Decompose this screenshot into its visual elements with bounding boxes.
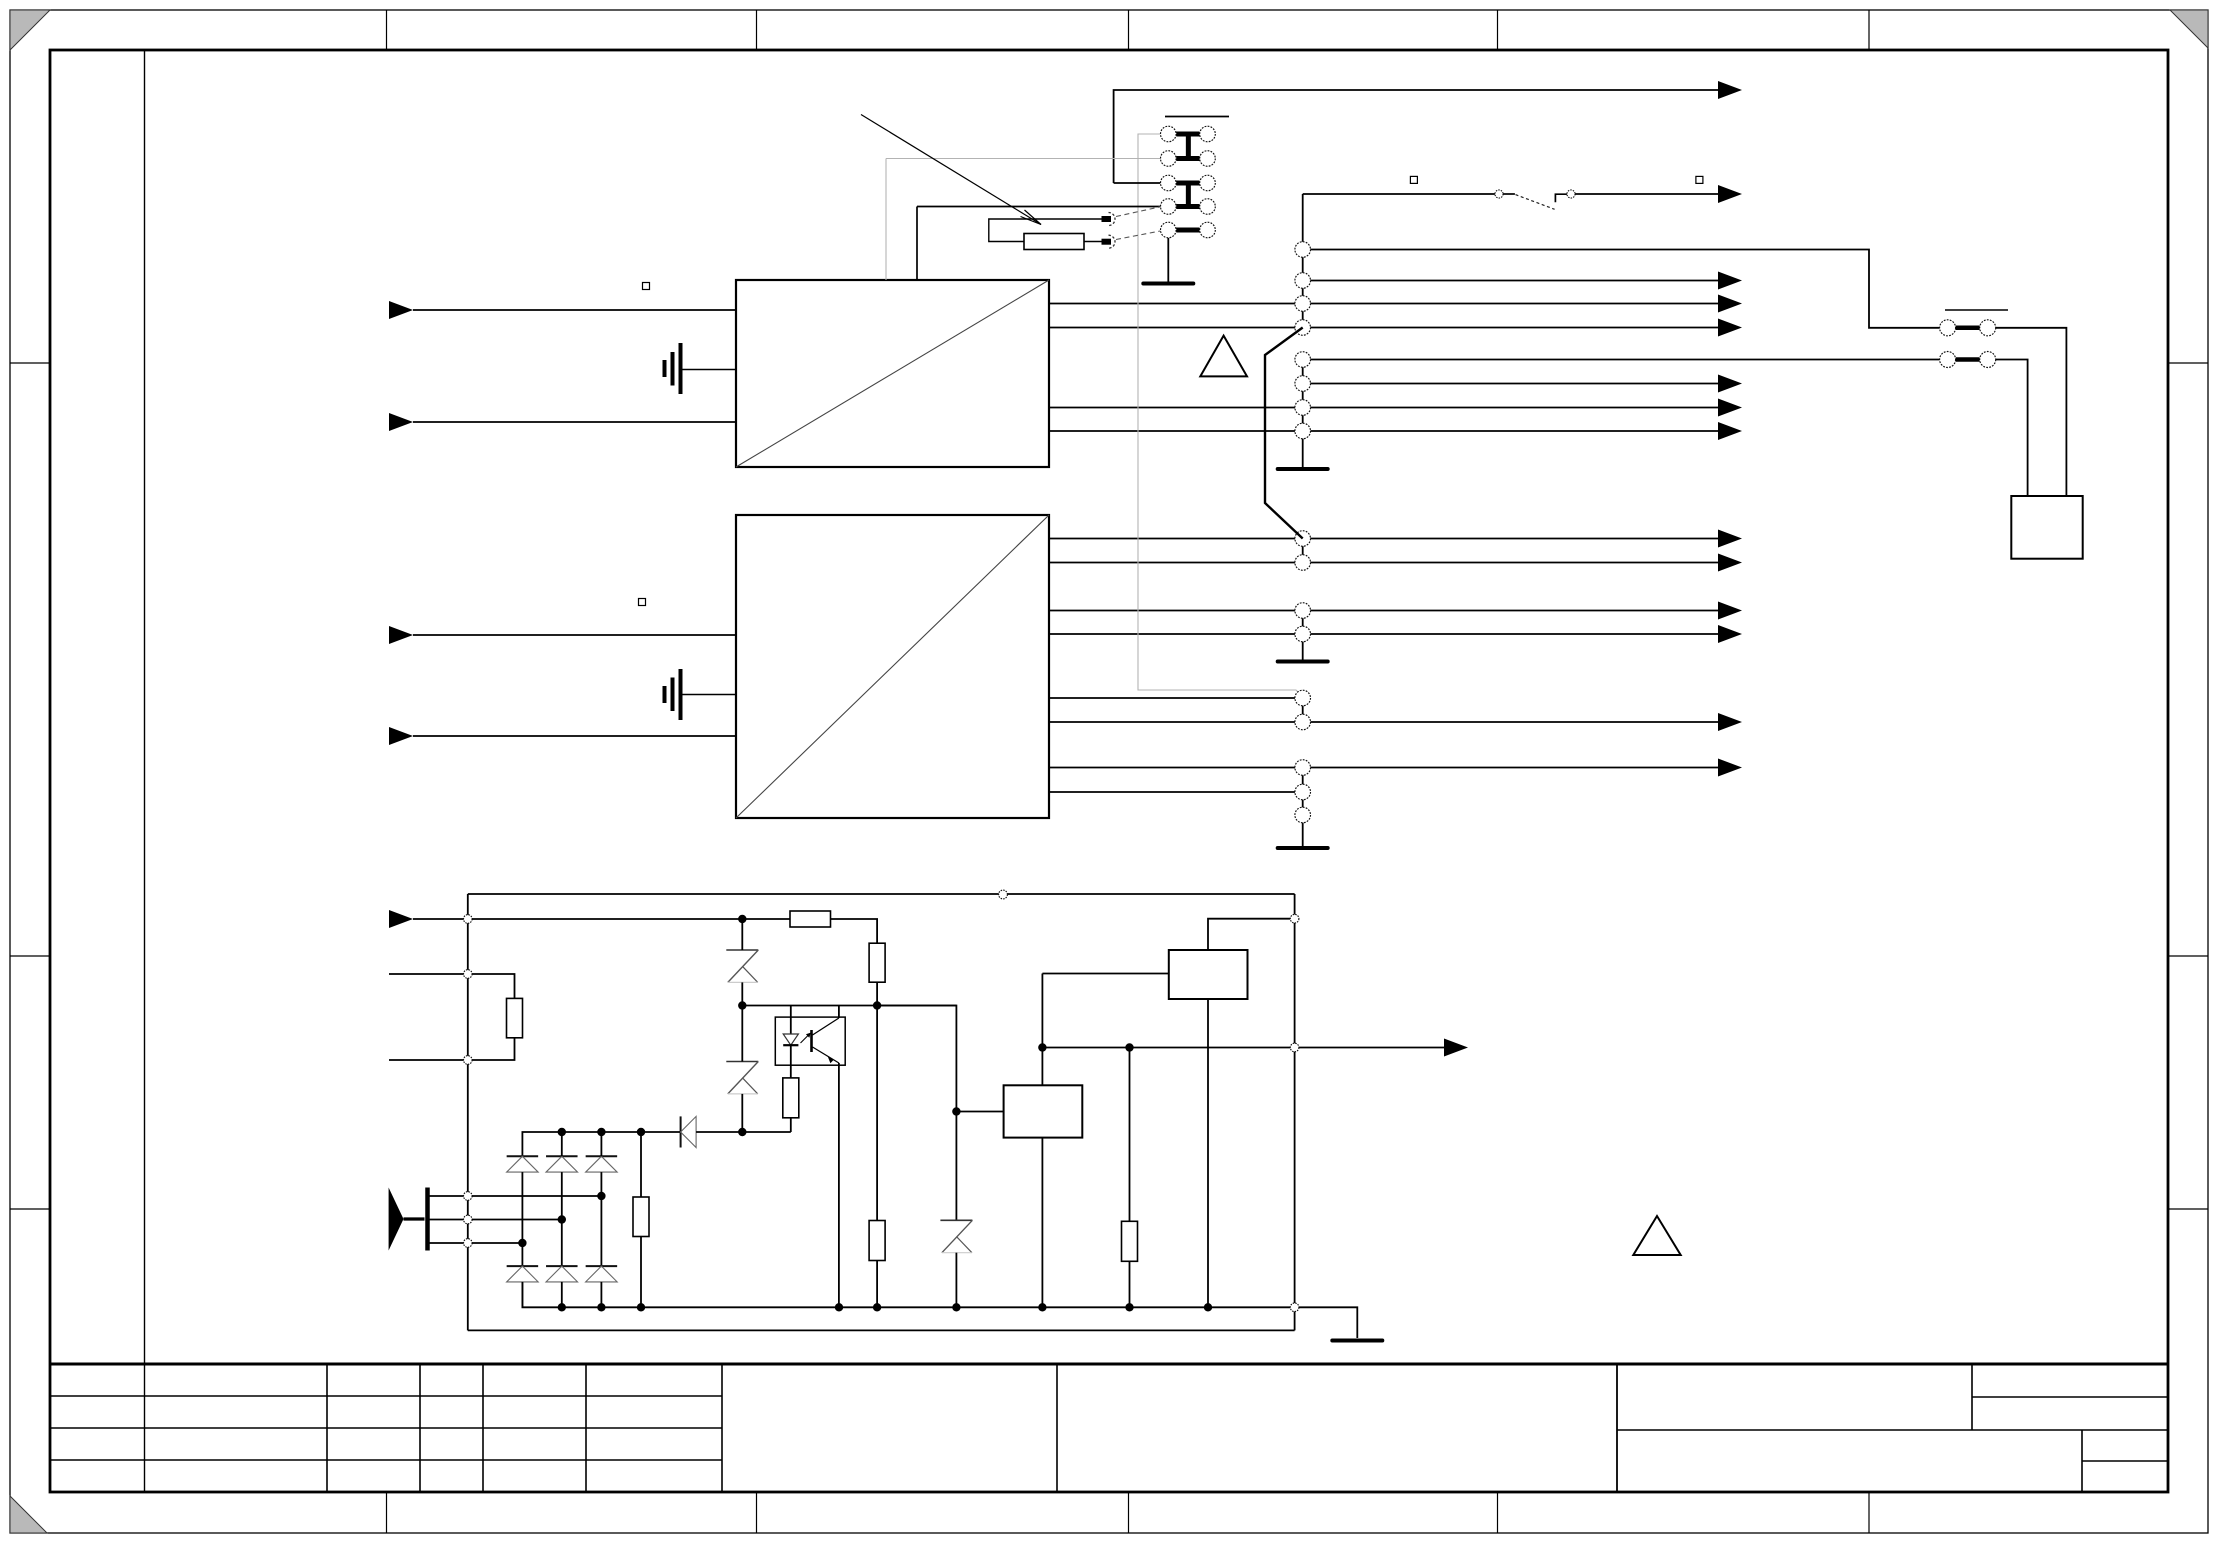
title block right section divider xyxy=(1616,1364,1618,1492)
wire R7 terminal A xyxy=(989,219,1103,242)
optocoupler U1 LED xyxy=(783,1034,798,1045)
bridge diode D6 bottom xyxy=(586,1265,618,1267)
adjust pointer arrow xyxy=(861,115,1041,225)
wire R2b bottom xyxy=(876,1261,878,1308)
wire bridge col2 top stub xyxy=(561,1132,563,1156)
title block right cell divider xyxy=(1971,1364,1973,1430)
title block middle divider xyxy=(1056,1364,1058,1492)
corner trim triangle top-left xyxy=(10,10,50,50)
chassis shield symbol PS2 xyxy=(663,686,667,703)
R7 clip terminal A xyxy=(1102,216,1112,222)
wire to switch S1 xyxy=(1303,193,1495,195)
junction dot Z3 rail xyxy=(952,1107,960,1115)
wire PS2 out6 xyxy=(1049,721,1720,723)
option square switch net xyxy=(1410,176,1417,183)
wire R5 bottom xyxy=(1129,1261,1131,1307)
module X1 box xyxy=(2011,496,2082,559)
resistor R3 xyxy=(633,1197,649,1237)
input arrow supply + xyxy=(389,910,413,928)
wire bus group2 vertical xyxy=(1302,360,1304,432)
output arrow bus row 280 xyxy=(1718,272,1742,290)
switch S1 contact stub xyxy=(1503,193,1515,195)
wire header J1 row4 entry xyxy=(917,206,1160,208)
wire PS1 top pin gray xyxy=(885,159,887,281)
junction dot Z1 top xyxy=(738,915,746,923)
output arrow PS2 out7 xyxy=(1718,759,1742,777)
wire bus group4 vertical xyxy=(1302,611,1304,635)
junction dot out row a xyxy=(1038,1043,1046,1051)
wire PS1 out3 xyxy=(1049,407,1720,409)
warning triangle 1 xyxy=(1200,336,1247,377)
wire PS1 top pin 2 xyxy=(916,207,918,281)
wire to U3 left pin xyxy=(956,1111,1003,1113)
ground bar bus group2 xyxy=(1278,467,1328,471)
title block column d xyxy=(585,1364,587,1492)
wire Z1 top xyxy=(741,919,743,950)
title block row line 2 xyxy=(50,1427,722,1429)
crossover jog wire xyxy=(1265,328,1303,539)
resistor R4 xyxy=(783,1078,799,1118)
title block right row line 3 xyxy=(2082,1460,2168,1462)
wire bus group6 ground stem xyxy=(1302,815,1304,846)
bridge diode D5 bottom xyxy=(546,1265,578,1267)
output arrow PS1 out2 xyxy=(1718,319,1742,337)
wire supply loop bottom xyxy=(468,1329,1295,1331)
output arrow PS2 out4 xyxy=(1718,625,1742,643)
wire line to right header row1 xyxy=(1303,250,1940,328)
input resistor R0 wires xyxy=(468,974,515,998)
bottom margin zone ticks xyxy=(386,1492,388,1533)
wire supply loop left rail xyxy=(467,894,469,1330)
bus terminal circles xyxy=(1295,242,1311,258)
sounder MK1 cone xyxy=(389,1188,404,1251)
wire PS2 out4 xyxy=(1049,633,1720,635)
wire bridge bottom bus xyxy=(522,1282,1290,1308)
junction dots bottom bus right xyxy=(835,1303,843,1311)
wire R3 top xyxy=(640,1132,642,1197)
input resistor R0 xyxy=(507,998,523,1037)
wire switch feed vertical xyxy=(1302,194,1304,328)
trimmer resistor R7 body xyxy=(1024,234,1084,250)
wire node corner to Z3 rail xyxy=(877,1006,956,1221)
optocoupler U1 box xyxy=(775,1017,845,1065)
wire bridge column 3 mid xyxy=(600,1172,602,1266)
wire PS2 out2 xyxy=(1049,562,1720,564)
output arrow VCC top xyxy=(1718,81,1742,99)
zener Z3 xyxy=(940,1219,972,1221)
wire PS2 out8 xyxy=(1049,791,1303,793)
gray sense wire 1 xyxy=(1138,134,1301,695)
wire R7 terminal B xyxy=(1084,241,1103,243)
wire PS1 out1 xyxy=(1049,303,1720,305)
wire header J1 ground stem xyxy=(1167,238,1169,282)
input line aux 2 xyxy=(389,1059,468,1061)
zener Z1 xyxy=(726,949,758,951)
input arrow to PS2 pin 1 xyxy=(389,626,413,644)
output arrow PS2 out6 xyxy=(1718,713,1742,731)
chassis shield symbol PS1 xyxy=(663,360,667,377)
corner trim triangle top-right xyxy=(2170,10,2208,48)
input arrow to PS2 pin 3 xyxy=(389,727,413,745)
left revision column line xyxy=(144,50,146,1492)
title block row line 1 xyxy=(50,1395,722,1397)
switch S1 contact tick xyxy=(1555,194,1567,202)
input arrow to PS1 pin 3 xyxy=(389,413,413,431)
output arrow PS2 out3 xyxy=(1718,602,1742,620)
wire LED cathode to R4 xyxy=(790,1045,792,1078)
wire switch S1 to arrow xyxy=(1575,193,1720,195)
junction dot D7 node xyxy=(738,1128,746,1136)
wire bridge top bus xyxy=(522,1132,680,1156)
wire MK1 pin3 xyxy=(430,1242,468,1244)
supply left terminal circles xyxy=(464,915,473,924)
connector J2 pair2 circles xyxy=(1940,352,1956,368)
title block column c xyxy=(482,1364,484,1492)
option square box PS2 xyxy=(639,599,646,606)
wire J2 pair2 to module xyxy=(1996,360,2028,497)
header J1 jumper 3-4 xyxy=(1176,181,1199,186)
resistor R1 xyxy=(790,911,831,927)
optocoupler U1 transistor xyxy=(810,1030,813,1052)
gray wire clip B to J1 pin9 xyxy=(1116,231,1160,240)
R7 clip terminal B xyxy=(1102,239,1112,245)
junction dot R2 node xyxy=(873,1001,881,1009)
zener Z2 xyxy=(726,1061,758,1063)
switch S1 contact R xyxy=(1567,190,1575,198)
wire bridge column 2 mid xyxy=(561,1172,563,1266)
wire phase B xyxy=(472,1219,562,1221)
title block right row line 1 xyxy=(1972,1396,2168,1398)
wire net VCC top xyxy=(1114,90,1720,183)
resistor R2 xyxy=(869,943,885,982)
wire J2 pair1 to module xyxy=(1996,328,2067,496)
wire bus group2 ground stem xyxy=(1302,431,1304,467)
junction dots bridge bottom xyxy=(558,1303,566,1311)
wire supply loop top xyxy=(468,893,1295,895)
wire U3 bottom pin xyxy=(1041,1138,1043,1308)
wire supply loop right rail xyxy=(1294,894,1296,1330)
regulator U3 box xyxy=(1004,1085,1083,1137)
connector J2 pair2 link xyxy=(1956,357,1980,362)
wire MK1 pin2 xyxy=(430,1219,468,1221)
output arrow PS2 out2 xyxy=(1718,554,1742,572)
wire MK1 pin1 xyxy=(430,1195,468,1197)
wire PS2 out1 xyxy=(1049,538,1720,540)
title block column e xyxy=(721,1364,723,1492)
option square switched out xyxy=(1696,176,1703,183)
wire U2 bottom pin xyxy=(1207,999,1209,1307)
ground bar bus group4 xyxy=(1278,660,1328,664)
wire header J1 row3 entry xyxy=(1114,182,1161,184)
wire R4 bottom xyxy=(790,1118,792,1132)
wire LED anode xyxy=(790,1006,792,1035)
wire phase C xyxy=(472,1242,522,1244)
gray sense wire 2 xyxy=(886,158,1160,160)
connector J2 pair1 circles xyxy=(1940,320,1956,336)
wire bus group6 vertical xyxy=(1302,768,1304,816)
wire ground tap xyxy=(1299,1307,1357,1338)
wire bus group5 vertical xyxy=(1302,698,1304,722)
warning triangle 2 xyxy=(1633,1216,1680,1255)
title block right small cell divider xyxy=(2081,1430,2083,1492)
top margin zone ticks xyxy=(386,10,388,50)
wire Z3 bottom xyxy=(955,1253,957,1308)
junction dots bridge top xyxy=(558,1128,566,1136)
wire Z2 top xyxy=(741,1006,743,1062)
wire bus row 280 xyxy=(1303,280,1720,282)
wire supply + to R1 xyxy=(472,918,790,920)
output arrow switched net xyxy=(1718,185,1742,203)
switch S1 contact L xyxy=(1495,190,1503,198)
header J1 jumper 5-6 xyxy=(1176,228,1199,233)
wire Z2 bottom xyxy=(741,1094,743,1132)
wire D7 to zener node xyxy=(696,1131,791,1133)
DC/DC converter PS2 xyxy=(736,515,1049,818)
resistor R2b xyxy=(869,1221,885,1261)
wire node row 1005 xyxy=(742,1005,956,1007)
wire R3 bottom xyxy=(640,1237,642,1308)
input arrow to PS1 pin 1 xyxy=(389,301,413,319)
header J1 pin circles xyxy=(1161,126,1177,142)
wire R5 rail xyxy=(1129,1048,1131,1222)
wire PS1 out4 xyxy=(1049,430,1720,432)
wire VCC out row xyxy=(1042,1047,1446,1049)
wire PS2 out3 xyxy=(1049,610,1720,612)
junction dot Z1 bottom xyxy=(738,1001,746,1009)
ground bar bus group6 xyxy=(1278,846,1328,850)
title block top rule xyxy=(50,1363,2168,1366)
wire PS1 out2 xyxy=(1049,327,1720,329)
wire U1 emitter rail xyxy=(838,1063,840,1307)
junction dots bridge taps xyxy=(597,1192,605,1200)
wire R1 to corner xyxy=(831,919,878,943)
title block column a xyxy=(326,1364,328,1492)
wire PS2 out5 xyxy=(1049,697,1303,699)
optocoupler U1 light arrow xyxy=(801,1034,811,1044)
left margin zone ticks xyxy=(10,362,50,364)
connector J2 pair1 link xyxy=(1956,326,1980,331)
gray wire clip A to J1 pin7 xyxy=(1116,207,1160,217)
wire U1 collector xyxy=(838,1006,840,1019)
wire PS2 out7 xyxy=(1049,767,1720,769)
switch S1 blade xyxy=(1516,195,1555,210)
output arrow PS2 out1 xyxy=(1718,530,1742,548)
wire bridge column 3 lower xyxy=(600,1282,602,1307)
wire bridge column 2 lower xyxy=(561,1282,563,1307)
output arrow PS1 out3 xyxy=(1718,399,1742,417)
wire bridge column 1 lower xyxy=(521,1282,523,1307)
right margin zone ticks xyxy=(2168,362,2208,364)
bridge diode D3 top xyxy=(586,1155,618,1157)
bridge diode D1 top xyxy=(507,1155,539,1157)
regulator U2 box xyxy=(1169,950,1248,999)
output arrow PS1 out1 xyxy=(1718,295,1742,313)
input line aux 1 xyxy=(389,973,468,975)
wire R2b rail xyxy=(876,1006,878,1221)
ground bar header J1 xyxy=(1143,282,1193,286)
wire U2 left pin xyxy=(1042,973,1168,975)
bridge diode D4 bottom xyxy=(507,1265,539,1267)
wire R2 to node xyxy=(876,982,878,1005)
bridge diode D2 top xyxy=(546,1155,578,1157)
supply loop top terminal circle xyxy=(999,890,1008,899)
wire Z1 bottom xyxy=(741,982,743,1005)
option square box PS1 xyxy=(643,283,650,290)
wire bus group3 vertical xyxy=(1302,539,1304,563)
wire U3 top pin xyxy=(1041,974,1043,1086)
sounder MK1 bar xyxy=(425,1188,430,1251)
header J1 jumper 1-2 xyxy=(1176,132,1199,137)
wire bus row 383 xyxy=(1303,383,1720,385)
wire bridge col3 top stub xyxy=(600,1132,602,1156)
output arrow VCC out xyxy=(1444,1039,1468,1057)
output arrow PS1 out4 xyxy=(1718,422,1742,440)
wire U2 top pin xyxy=(1208,919,1290,950)
wire line to right header row2 xyxy=(1303,359,1940,361)
wire phase A xyxy=(472,1195,601,1197)
wire bus group4 ground stem xyxy=(1302,634,1304,660)
corner trim triangle bottom-left xyxy=(10,1496,47,1533)
output arrow bus row 383 xyxy=(1718,375,1742,393)
supply right terminal circles xyxy=(1290,914,1299,923)
wire bridge column 1 mid xyxy=(521,1172,523,1266)
resistor R5 xyxy=(1122,1221,1138,1261)
junction dot out row b xyxy=(1125,1043,1133,1051)
title block column b xyxy=(419,1364,421,1492)
series diode D7 xyxy=(680,1116,682,1147)
title block right row line 2 xyxy=(1617,1429,2168,1431)
DC/DC converter PS1 xyxy=(736,280,1049,467)
connector J2 label underline xyxy=(1945,309,2008,311)
title block row line 3 xyxy=(50,1459,722,1461)
ground bar supply xyxy=(1332,1339,1382,1343)
header J1 label underline xyxy=(1165,116,1229,118)
